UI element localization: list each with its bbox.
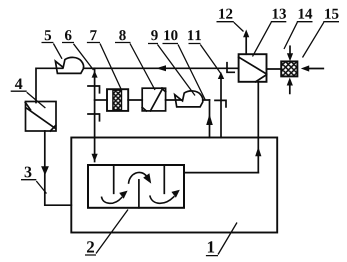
wire: box 13 to filter 14: [267, 68, 282, 70]
label 4 underline and leader: [11, 91, 46, 108]
heater 8: [142, 88, 165, 111]
label 15: [325, 9, 338, 19]
exhaust arrow 12: [243, 30, 249, 38]
wire: insert outlet line to riser: [184, 172, 258, 174]
label 14 underline and leader: [284, 22, 313, 49]
wire: riser from top junction down into chamber: [220, 78, 222, 138]
label 6: [65, 30, 72, 40]
wire: box 13 down to chamber outlet line: [257, 82, 259, 173]
label 14: [299, 9, 313, 19]
label 8 underline and leader: [115, 43, 155, 91]
fan 9: [175, 91, 203, 107]
label 10: [164, 30, 177, 40]
wire: main top line from fan 5 to box 13: [83, 67, 238, 69]
wire: fan 9 outlet to riser: [203, 99, 210, 101]
intake arrow left into filter 14: [301, 65, 309, 71]
filter 7: [107, 89, 128, 111]
intake line below filter 14: [289, 86, 291, 94]
insert 2 baffle left (from top): [113, 165, 115, 193]
label 11 underline and leader: [189, 44, 221, 74]
flow arrow up toward top junction: [218, 72, 224, 79]
flow arrow up into top-line junction: [92, 71, 98, 78]
label 2 underline and leader: [85, 210, 128, 256]
label 5 underline and leader: [42, 43, 63, 59]
label 2: [87, 241, 94, 252]
wire: heater 8 to fan 9: [166, 99, 182, 101]
flow arrow down on pipe 3: [41, 166, 49, 175]
exhaust line 12 above box 13: [245, 36, 247, 54]
fan 5: [55, 57, 83, 73]
label 7 underline and leader: [87, 43, 122, 91]
filter 14: [281, 61, 297, 76]
flow arrow down into insert 2: [92, 154, 98, 162]
wire: inlet corner to heat exchanger 4 top: [36, 68, 63, 102]
label 12: [219, 9, 232, 19]
label 8: [119, 30, 126, 40]
circulation arch arrow over middle baffle: [129, 172, 147, 183]
label 3: [25, 167, 32, 178]
heat exchanger 4: [26, 102, 57, 132]
intake line above filter 14: [289, 46, 291, 53]
heat exchanger 13: [239, 54, 267, 82]
damper 11 on horizontal line: [227, 63, 234, 73]
label 9 underline and leader: [148, 44, 195, 96]
damper on riser x=221: [215, 100, 226, 107]
label 12 underline and leader: [217, 22, 244, 32]
label 9: [151, 30, 158, 40]
wire: vertical drop at x=94.6 from top line to chamber insert: [94, 68, 96, 161]
intake line 15 right of filter 14: [309, 68, 323, 70]
flow arrow up on riser 10: [206, 114, 213, 125]
flow arrow (left) on top line: [156, 65, 166, 71]
label 3 underline and leader: [21, 180, 47, 194]
insert 2 baffle right (from top): [163, 165, 165, 193]
label 13: [273, 9, 286, 19]
flow arrow up inside chamber on riser to box 13: [255, 147, 261, 157]
chamber 1: [71, 138, 277, 233]
circulation arrow under right baffle: [150, 196, 174, 203]
circulation arrow under left baffle: [102, 197, 122, 203]
pipe 3: heat exchanger 4 down to chamber: [45, 131, 72, 205]
label 4: [15, 78, 22, 89]
label 1: [208, 241, 214, 252]
label 7: [90, 30, 96, 40]
label 10 underline and leader: [163, 44, 206, 101]
label 6 underline and leader: [62, 43, 94, 71]
insert 2 baffle middle (from bottom): [138, 180, 140, 208]
insert 2 (labyrinth box): [88, 165, 184, 208]
label 5: [45, 30, 51, 40]
damper 6 (upper blade): [88, 86, 100, 93]
riser 10: duct from chamber up to fan 9: [209, 100, 211, 138]
label 13 underline and leader: [253, 22, 287, 57]
intake arrow down into filter 14: [287, 53, 293, 61]
intake arrow up into filter 14: [287, 78, 293, 86]
wire: branch to filter 7: [95, 99, 107, 101]
label 15 underline and leader: [303, 22, 340, 58]
damper 6 (lower blade): [88, 114, 100, 121]
wire: filter 7 to heater 8: [128, 99, 142, 101]
label 1 underline and leader: [206, 223, 237, 256]
label 11: [188, 30, 201, 40]
